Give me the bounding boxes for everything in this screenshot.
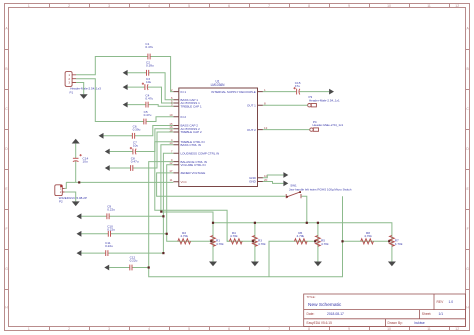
resistor R5	[316, 236, 330, 247]
svg-text:VOLUME CTRL IN: VOLUME CTRL IN	[181, 163, 206, 167]
ground	[105, 149, 110, 155]
svg-text:Header-Male-2.54_1x1: Header-Male-2.54_1x1	[313, 123, 344, 127]
svg-text:4.70k: 4.70k	[395, 242, 403, 246]
wire C12 to balance bus	[109, 267, 149, 269]
svg-text:F: F	[5, 227, 7, 231]
svg-text:10: 10	[387, 327, 391, 331]
svg-text:1: 1	[28, 4, 30, 8]
svg-text:0.22u: 0.22u	[105, 244, 113, 248]
wire R6 row	[269, 241, 315, 276]
capacitor C2	[146, 60, 154, 76]
svg-text:5: 5	[188, 4, 190, 8]
wire OUT1 to P3	[263, 104, 308, 106]
capacitor C1	[145, 42, 153, 60]
wire P2 pin1 to VCC	[65, 182, 67, 188]
resistor R8	[361, 231, 374, 244]
svg-text:0.22u: 0.22u	[107, 228, 115, 232]
svg-text:G: G	[5, 267, 8, 271]
svg-text:Header-Male-2.54_1x1: Header-Male-2.54_1x1	[309, 98, 340, 102]
wire R1 branch	[212, 223, 214, 262]
svg-text:4: 4	[148, 4, 150, 8]
junction	[166, 233, 168, 235]
polarized capacitor C14	[73, 154, 89, 164]
svg-text:2: 2	[68, 327, 70, 331]
wire BALANCE line and bottom bus	[149, 162, 343, 277]
svg-text:5: 5	[188, 327, 190, 331]
junction	[306, 222, 308, 224]
svg-text:4.70k: 4.70k	[364, 234, 372, 238]
wire P2 pin2 to ground	[65, 192, 76, 201]
resistor R4	[229, 231, 242, 244]
svg-text:1: 1	[28, 327, 30, 331]
svg-text:0.47u: 0.47u	[131, 160, 139, 164]
ground	[99, 133, 104, 139]
ground	[77, 250, 82, 256]
capacitor C6	[132, 124, 140, 139]
svg-text:GND: GND	[249, 180, 257, 184]
svg-text:SW1: SW1	[290, 183, 297, 187]
ground	[72, 139, 80, 144]
ground	[72, 201, 80, 206]
capacitor C9	[107, 205, 115, 220]
polarized capacitor C7	[130, 140, 139, 154]
junction	[162, 215, 164, 217]
capacitor C5	[144, 110, 152, 125]
svg-text:2: 2	[68, 4, 70, 8]
wire C14 branch	[75, 144, 77, 183]
connector P2 WJ2EDGVC-5.08-2P	[55, 185, 87, 204]
wire P1 pin1 to C1 to IC IN1	[76, 57, 173, 92]
junction	[254, 222, 256, 224]
switch SW1	[286, 183, 352, 198]
svg-text:U1: U1	[215, 79, 219, 83]
svg-text:1.0: 1.0	[449, 300, 454, 304]
wire VOLUME line to R2	[167, 165, 212, 242]
svg-text:4.70k: 4.70k	[230, 234, 238, 238]
svg-text:TREBLE CAP 2: TREBLE CAP 2	[181, 130, 202, 134]
svg-text:2018-08-17: 2018-08-17	[327, 312, 344, 316]
svg-text:4.70k: 4.70k	[216, 242, 224, 246]
wire LOUDNESS line	[163, 153, 173, 253]
connector P4 Header-Male-2.54_1x1	[310, 120, 344, 132]
svg-text:3: 3	[68, 81, 70, 85]
svg-text:Date:: Date:	[307, 312, 315, 316]
wire P1 pin2 to C5 to IC IN2	[76, 79, 173, 122]
polarized capacitor C3	[142, 77, 152, 90]
svg-text:6: 6	[228, 327, 230, 331]
svg-text:7: 7	[268, 327, 270, 331]
svg-text:12: 12	[455, 4, 459, 8]
junction	[252, 240, 254, 242]
capacitor C11	[105, 241, 113, 256]
ground	[388, 262, 396, 267]
svg-text:7: 7	[268, 4, 270, 8]
svg-text:TREBLE CAP 1: TREBLE CAP 1	[181, 104, 202, 108]
svg-text:10u: 10u	[83, 160, 88, 164]
wire R4 row	[227, 240, 253, 242]
svg-text:P1: P1	[70, 90, 74, 94]
svg-text:0.39u: 0.39u	[133, 127, 141, 131]
svg-text:Drawn By:: Drawn By:	[388, 321, 403, 325]
wire P1 pin3 to ground	[76, 83, 84, 95]
svg-text:4: 4	[148, 327, 150, 331]
svg-text:6: 6	[228, 4, 230, 8]
ground	[251, 262, 259, 267]
capacitor C4	[145, 93, 153, 107]
ground	[283, 181, 288, 187]
svg-text:10u: 10u	[146, 80, 151, 84]
ground	[80, 94, 88, 99]
wire C4 to TREBLE CAP 1	[128, 105, 174, 107]
svg-text:bukiwe: bukiwe	[415, 321, 425, 325]
resistor R3	[252, 236, 266, 247]
svg-text:Sheet:: Sheet:	[422, 312, 432, 316]
connector P1 Header-Male-2.54_1x3	[65, 72, 101, 95]
svg-text:IN 2: IN 2	[181, 115, 187, 119]
svg-text:LOUDNESS COMP CTRL IN: LOUDNESS COMP CTRL IN	[181, 152, 220, 156]
svg-text:OUT 2: OUT 2	[247, 128, 256, 132]
wire switch to rail	[302, 196, 307, 223]
svg-text:4.70k: 4.70k	[258, 242, 266, 246]
svg-text:0.47u: 0.47u	[144, 113, 152, 117]
wire zener rail to R7	[213, 223, 392, 262]
wire C7 to AC BYPASS 2	[110, 129, 174, 152]
capacitor C8	[131, 157, 139, 172]
junction	[212, 222, 214, 224]
svg-text:0.22u: 0.22u	[107, 208, 115, 212]
junction	[317, 222, 319, 224]
svg-text:1: 1	[68, 73, 70, 77]
svg-text:G: G	[466, 267, 469, 271]
svg-text:11: 11	[427, 327, 431, 331]
wire VCC rail	[66, 181, 173, 183]
svg-text:3: 3	[108, 4, 110, 8]
svg-text:10u: 10u	[133, 143, 138, 147]
svg-text:TITLE:: TITLE:	[307, 295, 316, 299]
svg-text:Header-Male-2.54_1x3: Header-Male-2.54_1x3	[70, 87, 101, 91]
svg-text:3: 3	[108, 327, 110, 331]
svg-text:INTERNAL SUPPLY DECOUPLE: INTERNAL SUPPLY DECOUPLE	[211, 90, 255, 94]
junction	[160, 211, 162, 213]
svg-text:9: 9	[348, 4, 350, 8]
svg-text:VCC: VCC	[181, 180, 188, 184]
wire R8 row	[343, 240, 390, 242]
junction	[162, 252, 164, 254]
junction	[341, 240, 343, 242]
svg-text:F: F	[467, 227, 469, 231]
svg-text:10: 10	[387, 4, 391, 8]
svg-text:12: 12	[455, 327, 459, 331]
resistor R7	[390, 236, 403, 247]
wire R5 branch	[317, 223, 319, 262]
wire BASS CTRL to rail	[161, 145, 213, 223]
junction	[78, 181, 80, 183]
wire C11 to loudness line	[81, 252, 163, 254]
wire C10 to volume line	[81, 233, 166, 235]
junction	[210, 240, 212, 242]
ground	[123, 102, 128, 108]
svg-text:4.70k: 4.70k	[321, 242, 329, 246]
svg-text:EasyEDA V5.6.15: EasyEDA V5.6.15	[307, 321, 333, 325]
svg-text:2: 2	[68, 77, 70, 81]
svg-text:1/1: 1/1	[439, 312, 444, 316]
svg-text:4.70k: 4.70k	[297, 234, 305, 238]
wire C6 to BASS CAP 2	[103, 126, 173, 136]
resistor R1	[211, 236, 224, 247]
svg-text:BASS CTRL IN: BASS CTRL IN	[181, 143, 201, 147]
polarized capacitor C15	[294, 81, 301, 95]
svg-text:0.47u: 0.47u	[145, 97, 153, 101]
svg-text:WJ2EDGVC-5.08-2P: WJ2EDGVC-5.08-2P	[59, 196, 87, 200]
ground	[77, 213, 82, 219]
svg-text:11: 11	[427, 4, 431, 8]
ground	[123, 70, 128, 76]
ground	[314, 262, 322, 267]
svg-text:ZENER VOLTAGE: ZENER VOLTAGE	[181, 171, 206, 175]
connector P3 Header-Male-2.54_1x1	[308, 95, 340, 107]
svg-text:Jaw handle left twins ROHS 100: Jaw handle left twins ROHS 100g Micro Sw…	[289, 188, 352, 192]
capacitor C12	[130, 255, 138, 270]
svg-text:9: 9	[348, 327, 350, 331]
wire R3 branch	[254, 223, 256, 262]
wire OUT2 to P4	[263, 129, 310, 131]
resistor R2	[178, 231, 191, 244]
svg-text:8: 8	[308, 327, 310, 331]
ground	[77, 231, 82, 237]
wire DECOUPLE through C15	[263, 91, 329, 93]
ground	[105, 165, 110, 171]
junction	[314, 240, 316, 242]
capacitor C10	[107, 225, 115, 238]
svg-text:0.22u: 0.22u	[130, 258, 138, 262]
wire GND pin 20	[263, 182, 284, 184]
svg-text:REV: REV	[437, 300, 445, 304]
svg-text:0.47u: 0.47u	[145, 45, 153, 49]
wire GND pin 10	[263, 175, 284, 178]
wire TREBLE CTRL to R4	[155, 142, 230, 242]
ground	[283, 172, 288, 178]
svg-text:11: 11	[169, 178, 172, 182]
wire C3 to AC BYPASS 1	[128, 87, 174, 103]
svg-text:8: 8	[308, 4, 310, 8]
ground	[104, 265, 109, 271]
wire C2 to BASS CAP 1	[128, 73, 174, 100]
ground	[209, 262, 217, 267]
svg-text:47u: 47u	[295, 84, 300, 88]
svg-text:0.39u: 0.39u	[146, 64, 154, 68]
wire C8 to TREBLE CAP 2	[110, 132, 174, 168]
svg-text:IN 1: IN 1	[181, 90, 187, 94]
IC U1 LM1036N	[169, 79, 267, 186]
wire ZENER to switch	[157, 173, 286, 196]
svg-text:OUT 1: OUT 1	[247, 103, 256, 107]
ground	[123, 84, 128, 90]
junction	[148, 266, 150, 268]
svg-text:4.70k: 4.70k	[180, 234, 188, 238]
wire C9 to bass line	[81, 215, 163, 217]
svg-text:P2: P2	[59, 199, 63, 203]
svg-text:LM1036N: LM1036N	[211, 83, 226, 87]
junction	[388, 240, 390, 242]
ground	[329, 89, 334, 95]
svg-text:GND: GND	[249, 176, 257, 180]
resistor R6	[294, 231, 307, 244]
